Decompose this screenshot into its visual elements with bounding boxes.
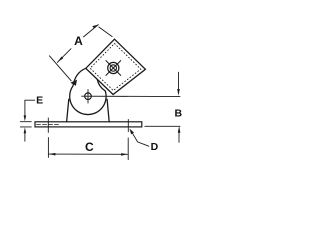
arrowhead C left <box>49 153 56 156</box>
plate hole X centermarks <box>106 61 121 76</box>
dim B bottom shaft <box>178 133 180 143</box>
swivel plate (diamond) outline <box>86 39 146 94</box>
dim E bottom extension line <box>20 126 31 128</box>
dim A lower shaft <box>57 49 71 63</box>
arrowhead B top <box>177 89 180 96</box>
arrowhead at hub (wedge) <box>70 80 77 86</box>
arrowhead D <box>130 129 135 135</box>
dim C line <box>49 153 128 155</box>
dim B bottom extension line <box>145 125 180 127</box>
base plate <box>35 122 142 127</box>
dim E top extension line <box>20 121 31 123</box>
arrowhead A lower <box>57 57 63 63</box>
arrowhead E bottom <box>24 127 27 133</box>
svg-text:B: B <box>175 108 183 120</box>
svg-text:C: C <box>85 140 94 154</box>
base plate hidden dashes <box>37 123 61 125</box>
plate hole outer circle <box>108 62 119 73</box>
dim A upper shaft <box>84 25 99 37</box>
support left edge <box>67 99 69 122</box>
hub barrel arc <box>70 86 106 115</box>
plate dotted inset <box>90 44 141 91</box>
arrowhead E top <box>24 115 27 121</box>
dim D leader <box>131 131 149 146</box>
svg-text:D: D <box>151 141 159 153</box>
dim E bottom shaft <box>24 133 26 141</box>
svg-text:A: A <box>74 34 83 48</box>
dim A upper extension line <box>99 27 112 37</box>
left hole centerline <box>47 118 49 132</box>
hub-plate right fillet <box>97 79 105 91</box>
arrowhead C right <box>121 153 128 156</box>
svg-text:E: E <box>36 94 43 106</box>
arrowhead B bottom <box>178 126 181 133</box>
arrowhead A upper <box>92 25 98 29</box>
dim B top shaft <box>178 72 180 89</box>
dim A lower extension line <box>49 56 71 81</box>
plate hole inner circle <box>110 65 116 71</box>
dim E top shaft + leader <box>25 100 35 116</box>
hub pivot vertical centermark <box>87 90 89 103</box>
hub-plate left fillet bump <box>73 68 86 86</box>
hub pivot small circle <box>85 93 92 100</box>
dim C right extension line <box>127 138 129 160</box>
dim C left extension line <box>47 138 49 158</box>
right hole centerline <box>127 119 129 131</box>
hub pivot horizontal centermark / B top extension line <box>82 95 180 97</box>
support right edge <box>107 99 109 122</box>
